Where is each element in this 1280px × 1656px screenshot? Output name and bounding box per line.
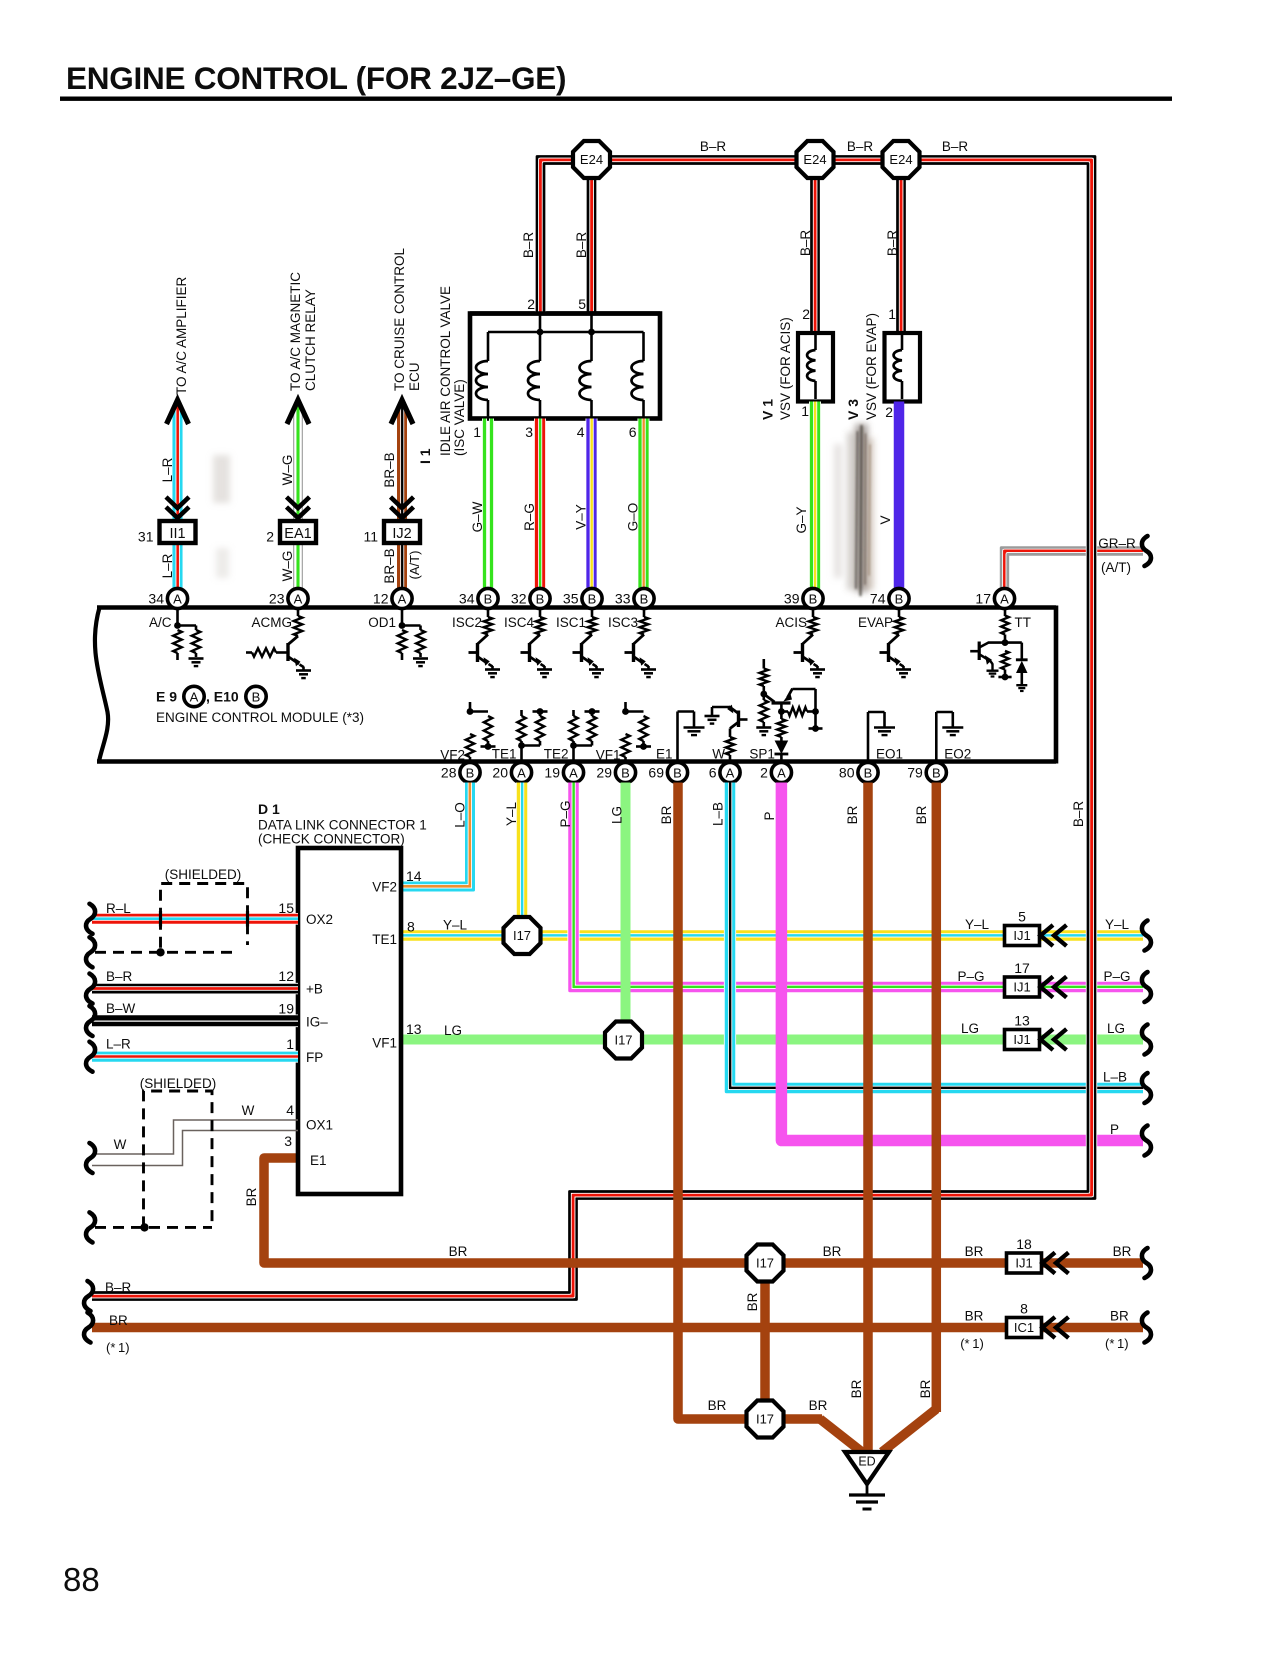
pin 69 B (E1) [667, 762, 687, 782]
svg-text:IJ2: IJ2 [392, 526, 411, 542]
pin 17 A (TT) [994, 588, 1014, 608]
ISC inner rail [488, 331, 644, 334]
svg-text:74: 74 [870, 591, 886, 607]
wire BR from pin 80 down to ED [863, 783, 873, 1453]
svg-text:BR: BR [823, 1244, 842, 1259]
svg-text:2: 2 [527, 296, 535, 312]
pin 74 B (EVAP) [889, 588, 909, 608]
svg-text:B: B [484, 591, 493, 606]
svg-text:E24: E24 [889, 152, 912, 167]
svg-text:Y–L: Y–L [504, 802, 519, 827]
ISC inner feed line pin5 [590, 315, 593, 332]
connector E24 #1 [573, 141, 610, 178]
svg-text:TE2: TE2 [544, 747, 569, 762]
VSV V3 (FOR EVAP) box [885, 333, 921, 402]
svg-text:2: 2 [760, 765, 768, 781]
svg-text:69: 69 [648, 765, 664, 781]
svg-text:ISC2: ISC2 [452, 615, 482, 630]
svg-text:A: A [1000, 591, 1009, 606]
svg-text:EO1: EO1 [876, 747, 903, 762]
svg-text:8: 8 [1020, 1301, 1028, 1317]
connector E24 #2 [797, 141, 834, 178]
svg-text:B: B [895, 591, 904, 606]
svg-text:BR: BR [845, 805, 860, 824]
ISC coil at x=488 [487, 332, 490, 361]
D1 data link connector box [298, 848, 401, 1194]
wire BR (*1) bottom run to IC1 8 [92, 1323, 1143, 1333]
svg-text:B: B [673, 765, 682, 780]
svg-text:1: 1 [801, 403, 809, 419]
svg-text:IJ1: IJ1 [1013, 1032, 1030, 1047]
svg-text:2: 2 [802, 306, 810, 322]
svg-text:A: A [190, 689, 199, 704]
wire Y-L vertical from pin 20 [523, 783, 528, 921]
ECM internal transistor ACIS [812, 608, 815, 617]
wire G-Y V1 to ACIS pin [816, 402, 821, 590]
chevrons above IJ2 [391, 497, 414, 508]
svg-text:ENGINE CONTROL MODULE (*3): ENGINE CONTROL MODULE (*3) [156, 710, 364, 725]
svg-text:13: 13 [1014, 1013, 1030, 1029]
svg-text:LG: LG [1107, 1021, 1125, 1036]
arrow to TO A/C AMPLIFIER [167, 400, 189, 424]
svg-text:I17: I17 [513, 928, 531, 943]
svg-text:BR: BR [449, 1244, 468, 1259]
ECM internal transistor EVAP [898, 608, 901, 617]
svg-text:ED: ED [858, 1455, 875, 1469]
svg-text:(* 1): (* 1) [106, 1340, 130, 1355]
chevrons above II1 [166, 497, 189, 508]
svg-text:, E10: , E10 [206, 689, 239, 705]
wire V&#8211;Y ISC pin 4 [593, 419, 598, 590]
ECM internal circuit VF2 [469, 702, 472, 712]
svg-text:5: 5 [1018, 909, 1026, 925]
ECM internal circuit VF1 [624, 702, 627, 712]
pin 79 B (EO2) [926, 762, 946, 782]
svg-text:BR: BR [1110, 1309, 1129, 1324]
ground ED (body ground) [845, 1452, 889, 1484]
wire BR diagonal into ED left [820, 1419, 862, 1452]
svg-text:W: W [242, 1103, 255, 1118]
svg-text:17: 17 [975, 591, 991, 607]
svg-text:B: B [640, 591, 649, 606]
svg-text:29: 29 [596, 765, 612, 781]
svg-text:BR: BR [745, 1292, 760, 1311]
svg-text:IC1: IC1 [1014, 1320, 1034, 1335]
svg-text:12: 12 [373, 591, 389, 607]
svg-text:BR: BR [659, 805, 674, 824]
ECM internal transistor ISC4 [539, 608, 542, 617]
svg-text:E24: E24 [580, 152, 603, 167]
svg-text:FP: FP [306, 1050, 323, 1065]
curly break B-R bottom left [84, 1281, 93, 1311]
curly break +B left [86, 974, 95, 1004]
svg-text:B: B [621, 765, 630, 780]
svg-text:B: B [536, 591, 545, 606]
svg-text:(SHIELDED): (SHIELDED) [140, 1076, 217, 1091]
chevrons above EA1 [287, 497, 310, 508]
svg-text:B: B [864, 765, 873, 780]
ISC box top border restored [470, 311, 660, 316]
svg-text:LG: LG [444, 1023, 462, 1038]
junction connector II1 [160, 521, 196, 543]
svg-text:13: 13 [406, 1021, 422, 1037]
wire Y-L horizontal TE1 row [401, 929, 1143, 934]
svg-text:I17: I17 [756, 1412, 774, 1427]
svg-text:(ISC VALVE): (ISC VALVE) [452, 379, 467, 456]
svg-text:B–R: B–R [521, 232, 536, 259]
svg-text:ACMG: ACMG [252, 615, 293, 630]
title underline rule [60, 97, 1172, 101]
svg-text:B–R: B–R [106, 969, 133, 984]
wire L&#8211;R upper (II1 column) [179, 405, 184, 521]
svg-text:B: B [466, 765, 475, 780]
svg-text:3: 3 [525, 424, 533, 440]
svg-text:BR: BR [244, 1187, 259, 1206]
svg-text:(CHECK CONNECTOR): (CHECK CONNECTOR) [258, 832, 405, 847]
ECM internal circuit A/C (resistors to ground) [176, 608, 179, 626]
svg-text:5: 5 [578, 296, 586, 312]
pin 28 B (VF2) [460, 762, 480, 782]
svg-text:20: 20 [492, 765, 508, 781]
svg-text:ISC4: ISC4 [504, 615, 535, 630]
svg-text:11: 11 [363, 529, 378, 545]
svg-text:+B: +B [306, 982, 323, 997]
ECM internal circuit OD1 (resistors to ground) [401, 608, 404, 626]
svg-text:TT: TT [1015, 615, 1032, 630]
VSV V1 (FOR ACIS) box [798, 333, 833, 402]
curly break L-B right [1142, 1073, 1151, 1103]
svg-text:(* 1): (* 1) [960, 1336, 984, 1351]
curly break W left [86, 1143, 95, 1173]
connector E24 #3 [883, 141, 920, 178]
svg-text:4: 4 [286, 1102, 294, 1118]
svg-text:BR–B: BR–B [382, 452, 397, 487]
svg-text:BR: BR [965, 1244, 984, 1259]
curly break shield upper left [86, 937, 95, 967]
svg-text:B–R: B–R [885, 230, 900, 257]
connector I17 on BR row 2 [747, 1401, 784, 1438]
svg-text:B: B [809, 591, 818, 606]
pin 6 A (W) [720, 762, 740, 782]
junction IJ1 18 [1007, 1253, 1042, 1273]
svg-text:B–R: B–R [700, 139, 727, 154]
svg-text:BR: BR [965, 1309, 984, 1324]
svg-text:BR: BR [809, 1398, 828, 1413]
svg-text:L–O: L–O [453, 802, 468, 828]
svg-text:IG–: IG– [306, 1015, 328, 1030]
svg-text:L–R: L–R [160, 553, 175, 578]
svg-text:R–L: R–L [106, 901, 131, 916]
curly break Y-L right [1142, 921, 1151, 951]
wire B-R drop E24#1 to ISC pin 5 [586, 165, 597, 314]
pin 29 B (VF1) [615, 762, 635, 782]
svg-text:R–G: R–G [522, 503, 537, 531]
svg-text:W–G: W–G [280, 455, 295, 486]
svg-text:A: A [398, 591, 407, 606]
svg-text:G–O: G–O [626, 503, 641, 532]
svg-text:VSV (FOR EVAP): VSV (FOR EVAP) [864, 313, 879, 420]
svg-text:79: 79 [907, 765, 923, 781]
svg-text:TE1: TE1 [372, 932, 397, 947]
wire W lower into OX1 [92, 1131, 298, 1166]
svg-text:(A/T): (A/T) [407, 551, 422, 580]
pin 35 B (ISC1) [582, 588, 602, 608]
svg-text:39: 39 [784, 591, 800, 607]
curly break BR row2 right [1142, 1313, 1151, 1343]
svg-text:I17: I17 [756, 1256, 774, 1271]
svg-text:31: 31 [138, 529, 154, 545]
wire W&#8211;G upper (EA1 column) [301, 405, 304, 521]
wire GR-R from TT pin to right (A/T) [1005, 551, 1144, 589]
ECM internal circuit TE1 [520, 710, 523, 716]
wire L&#8211;R lower (II1 column) [179, 543, 184, 589]
svg-text:B–R: B–R [942, 139, 969, 154]
curly break R-L left [86, 904, 95, 934]
svg-text:19: 19 [544, 765, 560, 781]
svg-text:II1: II1 [169, 526, 185, 542]
svg-text:VSV (FOR ACIS): VSV (FOR ACIS) [778, 317, 793, 420]
svg-text:LG: LG [610, 806, 625, 824]
svg-text:EO2: EO2 [944, 747, 971, 762]
svg-text:3: 3 [284, 1133, 292, 1149]
svg-text:V 3: V 3 [845, 399, 861, 420]
wire BR&#8211;B lower (IJ2 column) [397, 543, 408, 589]
svg-text:ENGINE CONTROL (FOR 2JZ–GE): ENGINE CONTROL (FOR 2JZ–GE) [66, 60, 566, 96]
svg-text:8: 8 [407, 919, 415, 935]
connector I17 on LG [605, 1022, 642, 1059]
ISC coil at x=540 [539, 332, 542, 361]
ECM internal circuit TT (transistor + zener) [1004, 608, 1007, 616]
svg-text:A: A [777, 765, 786, 780]
svg-text:1: 1 [473, 424, 481, 440]
curly break BR row1 right [1142, 1248, 1151, 1278]
ECM internal transistor ISC3 [643, 608, 646, 617]
svg-text:ACIS: ACIS [775, 615, 807, 630]
svg-text:I17: I17 [614, 1033, 632, 1048]
svg-text:BR: BR [1113, 1244, 1132, 1259]
svg-text:B–R: B–R [105, 1280, 132, 1295]
ECM internal circuit SP1 (transistor, diode) [762, 659, 765, 669]
svg-text:2: 2 [885, 404, 893, 420]
wire P from pin 2 down and right [781, 783, 1143, 1141]
svg-text:TO CRUISE CONTROL: TO CRUISE CONTROL [392, 247, 407, 391]
svg-text:TO A/C MAGNETIC: TO A/C MAGNETIC [288, 272, 303, 391]
pin 80 B (EO1) [858, 762, 878, 782]
ISC coil at x=643.5 [642, 332, 645, 361]
junction connector IJ2 [384, 521, 420, 543]
svg-text:34: 34 [148, 591, 164, 607]
svg-text:L–B: L–B [711, 802, 726, 826]
junction dot ISC pin2 [537, 329, 544, 336]
junction connector EA1 [280, 521, 316, 543]
wire B-R drop E24#2 to VSV V1 [810, 165, 821, 333]
wire LG vertical from pin 29 [621, 783, 631, 1025]
svg-text:A: A [569, 765, 578, 780]
svg-text:EA1: EA1 [284, 526, 311, 542]
svg-text:V: V [878, 515, 893, 524]
wire BR between I17 connectors [760, 1281, 770, 1401]
pin 20 A (TE1) [511, 762, 531, 782]
svg-text:14: 14 [406, 868, 422, 884]
wire L-B from pin 6 down and right [734, 783, 1143, 1085]
pin 2 A (SP1) [771, 762, 791, 782]
pin 12 A (OD1) [392, 588, 412, 608]
svg-text:34: 34 [459, 591, 475, 607]
svg-text:ISC3: ISC3 [608, 615, 638, 630]
curly break GR-R right [1142, 536, 1151, 566]
wire W&#8211;G lower (EA1 column) [301, 543, 304, 589]
junction IC1 8 [1007, 1318, 1042, 1338]
svg-text:P–G: P–G [957, 969, 984, 984]
svg-text:B–R: B–R [574, 232, 589, 259]
wire W upper into OX1 [92, 1120, 298, 1154]
wire BR from pin 79 down to ED right diagonal [932, 783, 942, 1413]
arrow to TO A/C MAGNETIC [287, 400, 309, 424]
svg-text:B: B [932, 765, 941, 780]
svg-text:4: 4 [577, 424, 585, 440]
wire B-R drop E24#3 to VSV V3 [896, 165, 907, 333]
curly break shield 2 left [86, 1212, 95, 1242]
svg-text:B: B [588, 591, 597, 606]
svg-text:TE1: TE1 [492, 747, 517, 762]
curly break IG left [86, 1006, 95, 1036]
svg-text:E 9: E 9 [156, 689, 177, 705]
svg-text:W: W [114, 1137, 127, 1152]
svg-text:A/C: A/C [149, 615, 172, 630]
svg-text:OX2: OX2 [306, 912, 333, 927]
svg-text:6: 6 [629, 424, 637, 440]
svg-text:D 1: D 1 [258, 801, 280, 817]
svg-text:TO A/C AMPLIFIER: TO A/C AMPLIFIER [174, 276, 189, 395]
svg-text:B–W: B–W [106, 1001, 136, 1016]
svg-text:L–B: L–B [1103, 1070, 1127, 1085]
svg-text:A: A [517, 765, 526, 780]
wire R-L into OX2 [92, 913, 298, 918]
svg-text:SP1: SP1 [749, 747, 775, 762]
svg-text:Y–L: Y–L [965, 917, 990, 932]
svg-text:28: 28 [441, 765, 457, 781]
svg-text:(* 1): (* 1) [1105, 1336, 1129, 1351]
shield box around R-L wire [95, 884, 248, 953]
svg-text:P: P [1110, 1122, 1119, 1137]
junction IJ1 13 [1005, 1030, 1040, 1050]
svg-text:32: 32 [511, 591, 527, 607]
svg-text:W: W [712, 747, 725, 762]
shield 2 junction dot [140, 1223, 148, 1231]
ECM internal transistor ISC1 [591, 608, 594, 617]
ISC inner feed line pin2 [539, 315, 542, 332]
svg-text:B–R: B–R [847, 139, 874, 154]
wire B-R into +B [92, 983, 298, 987]
pin 34 A (A/C) [167, 588, 187, 608]
svg-text:P–G: P–G [558, 800, 573, 827]
svg-text:BR: BR [849, 1379, 864, 1398]
wire R&#8211;G ISC pin 3 [541, 419, 546, 590]
wire P-G from pin 19 down and right [577, 783, 1143, 984]
svg-text:CLUTCH RELAY: CLUTCH RELAY [303, 289, 318, 391]
pin 34 B (ISC2) [478, 588, 498, 608]
svg-text:G–W: G–W [470, 501, 485, 532]
svg-text:1: 1 [286, 1036, 294, 1052]
junction IJ1 5 [1005, 926, 1040, 946]
svg-text:E24: E24 [803, 152, 826, 167]
svg-text:12: 12 [278, 968, 294, 984]
pin 33 B (ISC3) [634, 588, 654, 608]
svg-text:A: A [726, 765, 735, 780]
pin 32 B (ISC4) [530, 588, 550, 608]
svg-text:GR–R: GR–R [1098, 536, 1136, 551]
svg-text:BR–B: BR–B [382, 548, 397, 583]
connector I17 on BR row 1 [747, 1245, 784, 1282]
svg-text:LG: LG [961, 1021, 979, 1036]
wire G&#8211;W ISC pin 1 [489, 419, 494, 590]
svg-text:B–R: B–R [798, 230, 813, 257]
ECM internal circuit EO1 (ground) [867, 712, 870, 761]
svg-text:P: P [762, 811, 777, 820]
junction IJ1 17 [1005, 977, 1040, 997]
engine control module box outline [95, 608, 108, 762]
svg-text:80: 80 [839, 765, 855, 781]
curly break P right [1142, 1126, 1151, 1156]
shield box 2 dashed [95, 1091, 212, 1227]
svg-text:VF1: VF1 [372, 1036, 397, 1051]
svg-text:VF1: VF1 [596, 748, 621, 763]
svg-text:EVAP: EVAP [858, 615, 893, 630]
svg-text:17: 17 [1014, 960, 1030, 976]
ECM internal circuit E1 (ground) [676, 712, 679, 762]
wire BR from D1 E1 pin down and right to IJ1 18 [264, 1158, 1143, 1263]
svg-text:L–R: L–R [160, 457, 175, 482]
svg-text:18: 18 [1016, 1236, 1032, 1252]
scan smudge artifact center (V3) [834, 424, 874, 592]
wire G&#8211;O ISC pin 6 [645, 419, 650, 590]
junction dot ISC pin5 [588, 329, 595, 336]
svg-text:A: A [294, 591, 303, 606]
connector I17 on Y-L [504, 917, 541, 954]
svg-text:ISC1: ISC1 [556, 615, 586, 630]
svg-text:OX1: OX1 [306, 1118, 333, 1133]
svg-text:A: A [173, 591, 182, 606]
curly break P-G right [1142, 972, 1151, 1002]
svg-text:Y–L: Y–L [1105, 917, 1130, 932]
wire BR&#8211;B upper (IJ2 column) [397, 405, 408, 521]
wire B-W into IG- [92, 1014, 298, 1021]
curly break FP left [86, 1042, 95, 1072]
svg-text:2: 2 [266, 529, 274, 545]
wire LG horizontal VF1 row [401, 1035, 1143, 1045]
svg-text:VF2: VF2 [440, 748, 465, 763]
svg-text:(SHIELDED): (SHIELDED) [165, 867, 242, 882]
svg-text:15: 15 [278, 900, 294, 916]
shield tick marks on R-L wire [159, 911, 162, 927]
wire L-O from pin 28 to D1 VF2 [401, 783, 467, 884]
curly break LG right [1142, 1025, 1151, 1055]
svg-text:BR: BR [708, 1398, 727, 1413]
svg-text:IJ1: IJ1 [1015, 1256, 1032, 1271]
ECM internal circuit TE2 [572, 710, 575, 716]
svg-text:IJ1: IJ1 [1013, 928, 1030, 943]
svg-text:(A/T): (A/T) [1101, 560, 1131, 575]
svg-text:V 1: V 1 [760, 399, 776, 420]
shield junction dot [156, 948, 164, 956]
svg-text:BR: BR [918, 1379, 933, 1398]
svg-text:BR: BR [109, 1313, 128, 1328]
svg-text:E1: E1 [310, 1153, 327, 1168]
ECM internal transistor ISC2 [487, 608, 490, 617]
wire V V3 to EVAP pin [894, 402, 905, 590]
svg-text:I 1: I 1 [417, 448, 433, 464]
svg-text:W–G: W–G [280, 551, 295, 582]
